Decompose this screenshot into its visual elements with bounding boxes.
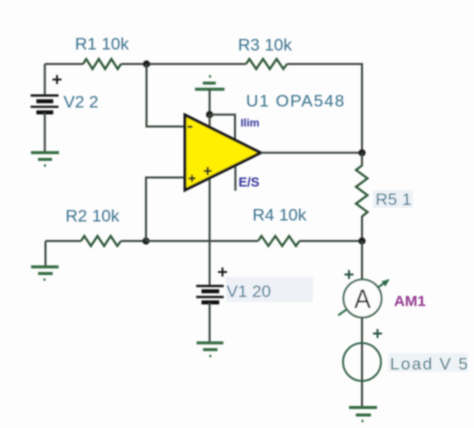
ground below V1	[197, 343, 224, 356]
label highlight V1	[226, 277, 313, 302]
resistor R5	[356, 166, 368, 217]
svg-text:R3 10k: R3 10k	[238, 36, 292, 55]
wire ground to op-amp V- node	[209, 89, 211, 114]
svg-text:Ilim: Ilim	[241, 118, 260, 130]
ground below V2	[31, 153, 59, 166]
wire node A to R3	[147, 63, 247, 65]
ammeter plus mark	[345, 270, 354, 279]
wire R5 to node C	[361, 216, 363, 241]
wire V2 bottom stem	[44, 112, 46, 152]
battery V2	[31, 96, 59, 113]
battery V1	[196, 286, 224, 302]
label highlight Load	[388, 353, 468, 372]
node D junction dot	[206, 111, 213, 118]
wire node B to R4	[146, 240, 258, 242]
node C junction dot	[358, 237, 365, 244]
svg-text:R1 10k: R1 10k	[75, 35, 129, 54]
node E junction dot	[358, 149, 365, 156]
wire ES pin stub	[234, 165, 236, 190]
wire R2 left end down to ground	[45, 241, 47, 267]
wire node B up to op-amp plus input	[146, 178, 185, 242]
wire ammeter to ground through load	[361, 318, 363, 408]
svg-text:AM1: AM1	[394, 293, 426, 310]
wire R1 to node A	[121, 63, 147, 65]
inverted ground above op-amp	[195, 76, 225, 89]
wire R2 left lead	[46, 240, 82, 242]
wire top from V2 to R1	[45, 63, 83, 65]
wire R2 to node B	[121, 240, 146, 242]
ammeter AM1 circle	[344, 280, 382, 318]
svg-text:A: A	[354, 284, 371, 314]
wire R4 to node C	[299, 240, 362, 242]
svg-text:R4 10k: R4 10k	[253, 206, 307, 225]
ground below R2	[31, 267, 58, 280]
svg-text:V2 2: V2 2	[64, 93, 99, 112]
resistor R4	[258, 236, 299, 246]
ground below load	[349, 408, 377, 422]
battery V1 plus mark	[218, 268, 227, 277]
resistor R3	[246, 59, 287, 69]
load voltage source circle	[343, 343, 381, 381]
wire node E to R5	[361, 153, 363, 166]
wire node A down to op-amp minus input	[147, 64, 185, 127]
svg-text:R5 1: R5 1	[376, 190, 412, 209]
wire V2 top stem	[44, 64, 46, 96]
wire V1 bottom stem	[209, 302, 211, 343]
node B junction dot	[142, 237, 149, 244]
wire op-amp V+ stem down to V1	[209, 178, 211, 286]
op-amp U1 triangle	[185, 115, 261, 190]
battery V2 plus mark	[53, 75, 62, 84]
wire Ilim pin stub	[210, 115, 235, 140]
svg-text:V1 20: V1 20	[227, 282, 271, 301]
svg-text:E/S: E/S	[239, 175, 260, 190]
svg-text:Load V 5: Load V 5	[390, 355, 469, 374]
wire R3 to right rail corner	[287, 64, 362, 153]
wire node D to triangle top edge	[209, 115, 211, 128]
wire node C to ammeter	[361, 241, 363, 280]
node A junction dot	[143, 60, 150, 67]
svg-text:R2 10k: R2 10k	[66, 207, 120, 226]
resistor R2	[81, 236, 121, 246]
svg-text:U1 OPA548: U1 OPA548	[246, 92, 345, 111]
label highlight R5	[373, 190, 413, 208]
resistor R1	[83, 59, 121, 69]
op-amp minus input mark	[188, 126, 193, 128]
op-amp plus input mark	[189, 175, 196, 182]
ammeter needle arrow	[338, 280, 388, 315]
op-amp plus supply mark	[204, 167, 212, 175]
load plus mark	[373, 329, 382, 338]
wire op-amp output to node E	[261, 152, 363, 154]
